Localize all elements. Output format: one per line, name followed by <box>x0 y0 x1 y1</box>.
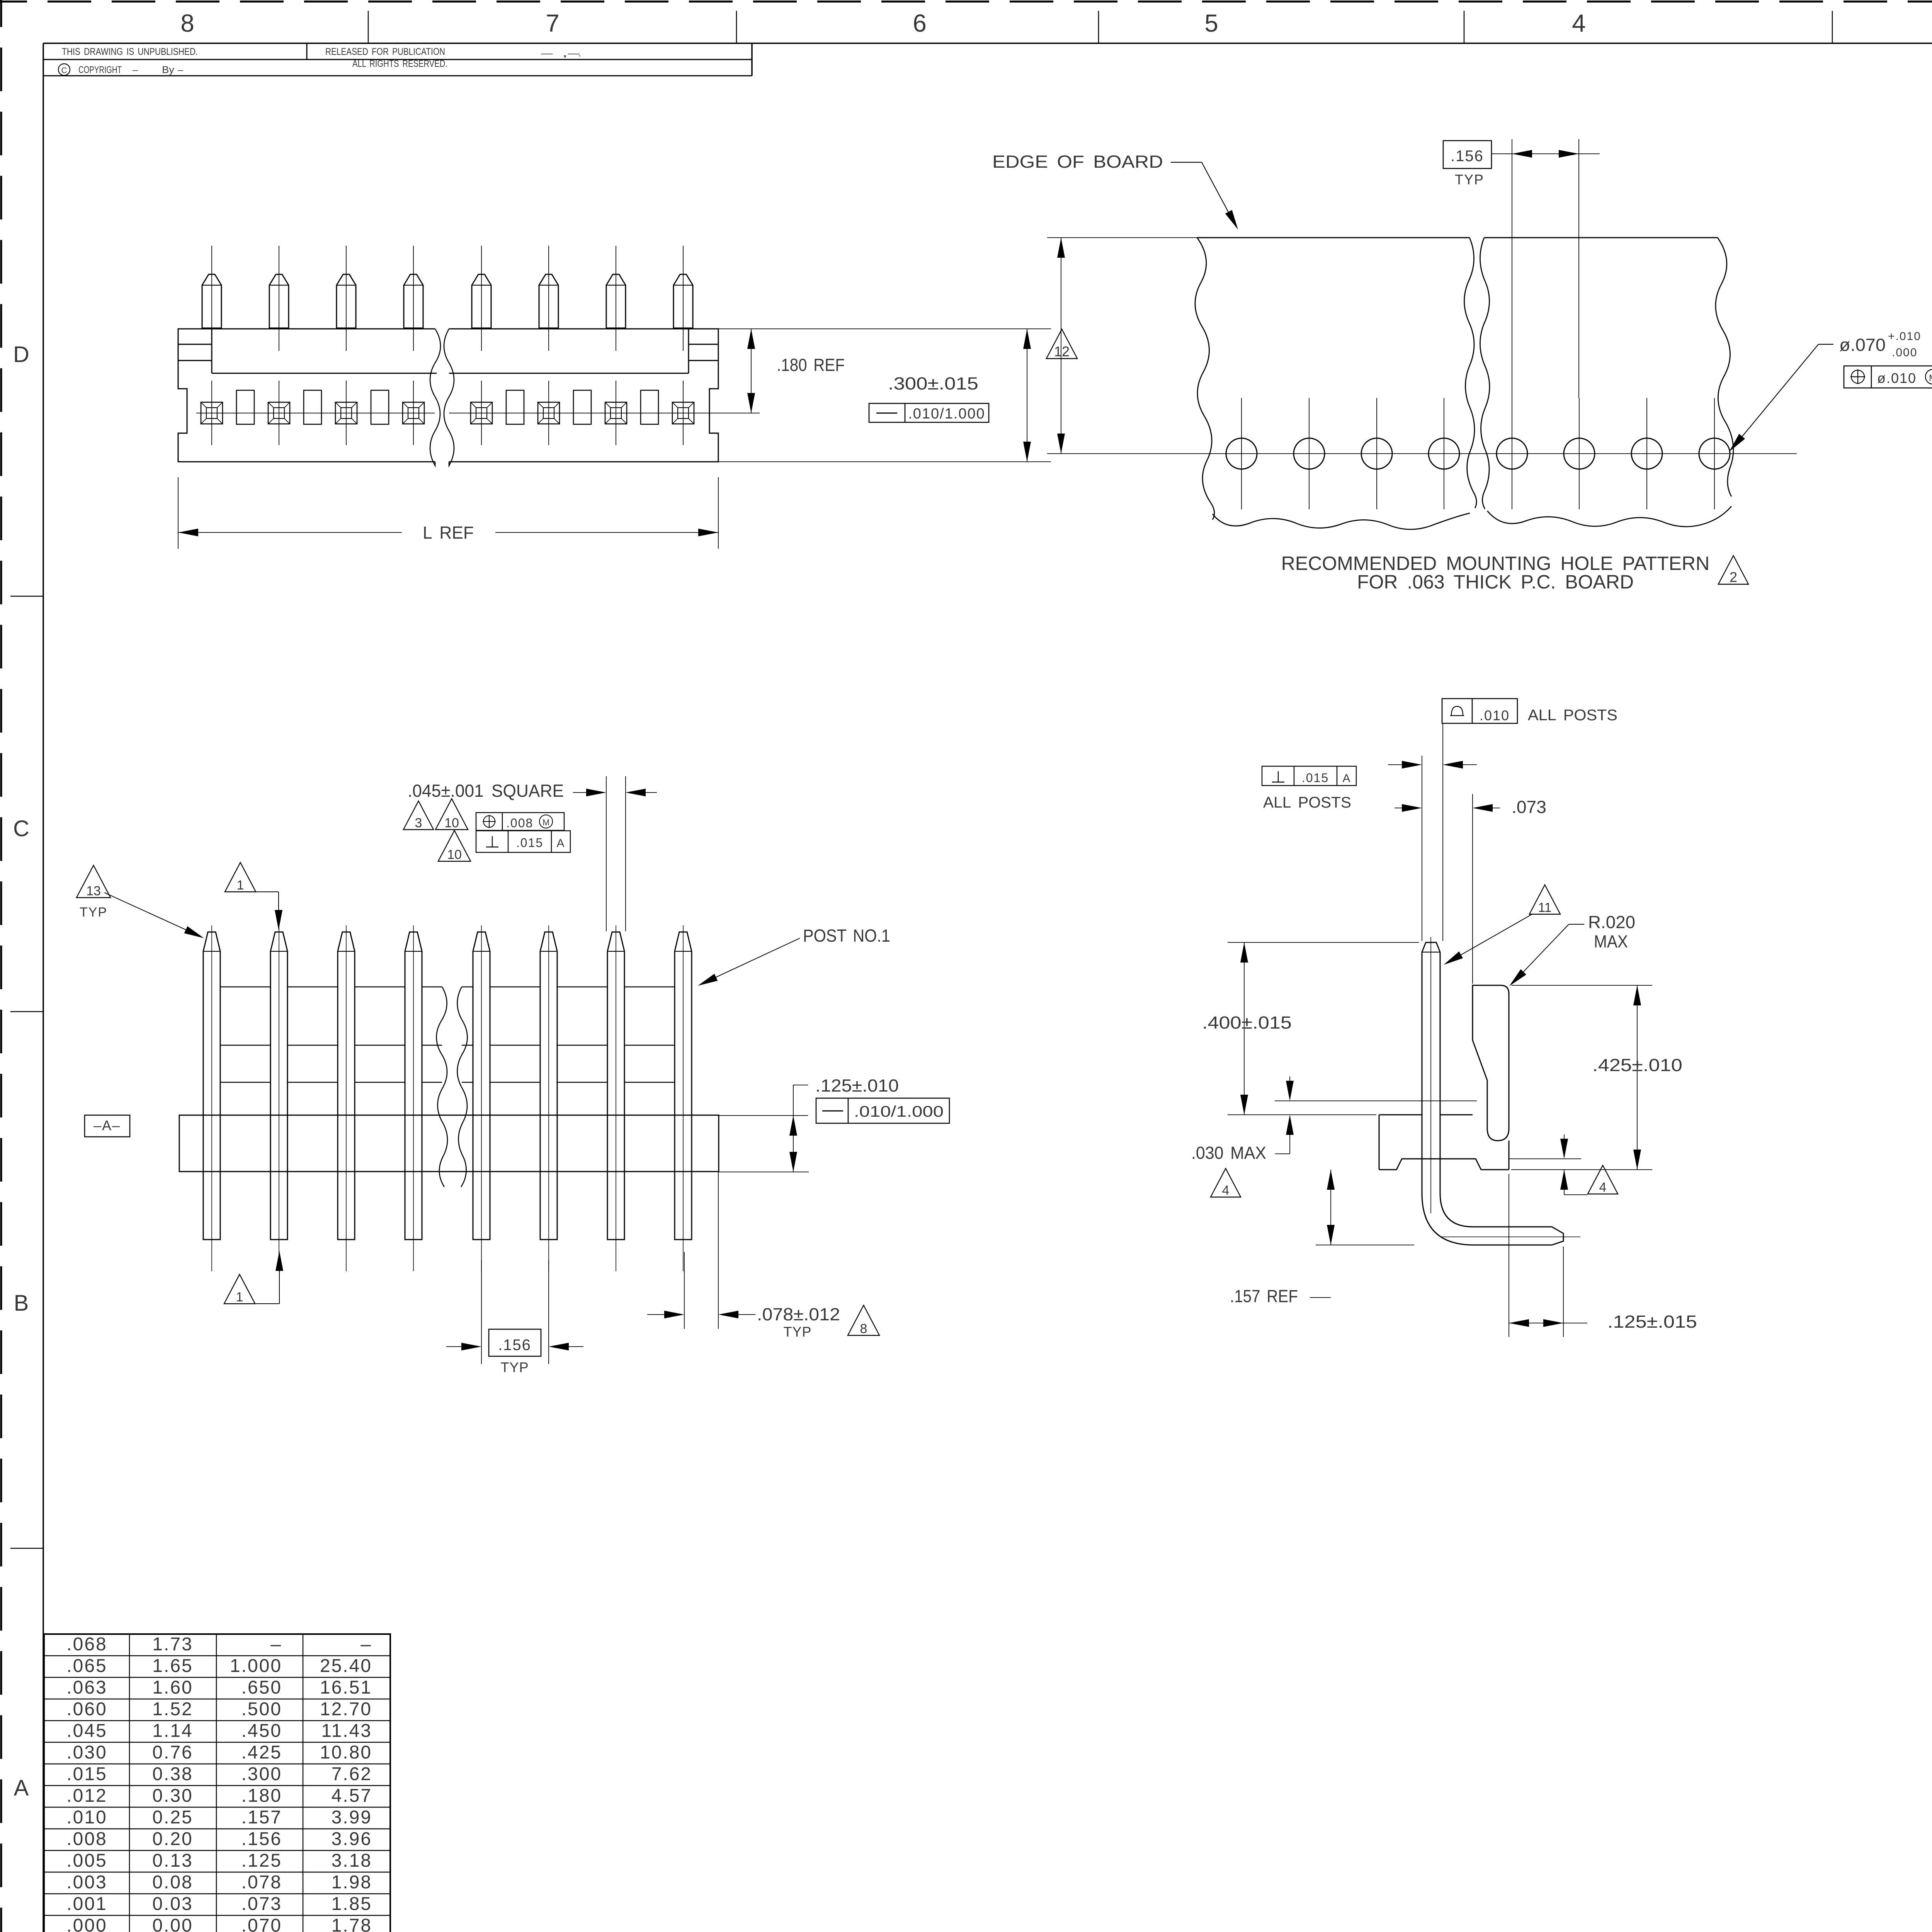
svg-text:.063: .063 <box>66 1677 107 1698</box>
svg-text:–: – <box>133 65 139 75</box>
svg-text:EDGE OF BOARD: EDGE OF BOARD <box>992 152 1163 172</box>
svg-text:.012: .012 <box>66 1786 107 1806</box>
svg-text:ø.010: ø.010 <box>1877 370 1917 386</box>
svg-text:TYP: TYP <box>500 1359 529 1375</box>
svg-text:A: A <box>1342 772 1350 785</box>
svg-text:3.99: 3.99 <box>332 1807 372 1828</box>
svg-text:.001: .001 <box>66 1894 107 1914</box>
svg-text:.015: .015 <box>1302 771 1329 785</box>
svg-text:.073: .073 <box>1512 797 1546 817</box>
svg-text:–A–: –A– <box>94 1117 121 1133</box>
svg-text:.078: .078 <box>241 1872 282 1893</box>
svg-text:TYP: TYP <box>783 1324 811 1340</box>
svg-text:.060: .060 <box>66 1699 107 1719</box>
svg-text:1: 1 <box>237 878 244 893</box>
svg-text:.425: .425 <box>241 1742 282 1763</box>
svg-text:MAX: MAX <box>1594 932 1628 951</box>
svg-text:1.98: 1.98 <box>332 1872 372 1893</box>
svg-text:0.08: 0.08 <box>152 1872 193 1893</box>
svg-text:C: C <box>13 816 29 841</box>
svg-text:D: D <box>13 342 29 367</box>
svg-text:.073: .073 <box>241 1894 282 1914</box>
svg-text:M: M <box>1929 373 1932 383</box>
svg-text:.000: .000 <box>66 1915 107 1932</box>
svg-text:1.14: 1.14 <box>152 1721 193 1741</box>
svg-text:4: 4 <box>1572 9 1586 37</box>
svg-text:.030: .030 <box>66 1742 107 1763</box>
svg-text:13: 13 <box>86 884 101 898</box>
svg-text:7: 7 <box>546 9 560 37</box>
svg-text:.300±.015: .300±.015 <box>888 374 978 393</box>
svg-text:0.20: 0.20 <box>152 1829 193 1849</box>
svg-text:12.70: 12.70 <box>320 1699 372 1719</box>
svg-text:.500: .500 <box>241 1699 282 1719</box>
svg-text:RELEASED FOR PUBLICATION: RELEASED FOR PUBLICATION <box>325 46 445 57</box>
svg-text:8: 8 <box>180 9 194 37</box>
svg-text:M: M <box>543 818 549 827</box>
svg-text:4.57: 4.57 <box>332 1786 372 1806</box>
svg-text:.125±.010: .125±.010 <box>815 1076 899 1095</box>
svg-text:.015: .015 <box>66 1764 107 1784</box>
svg-text:+.010: +.010 <box>1888 330 1921 343</box>
svg-text:1: 1 <box>236 1290 243 1304</box>
svg-text:.450: .450 <box>241 1721 282 1741</box>
svg-text:8: 8 <box>860 1321 867 1336</box>
svg-text:10: 10 <box>444 816 459 830</box>
svg-text:3: 3 <box>415 816 422 830</box>
svg-text:7.62: 7.62 <box>332 1764 372 1784</box>
svg-text:1.60: 1.60 <box>152 1677 193 1698</box>
svg-text:.065: .065 <box>66 1656 107 1676</box>
svg-text:10: 10 <box>447 847 462 862</box>
svg-text:.156: .156 <box>241 1829 282 1849</box>
svg-text:.068: .068 <box>66 1634 107 1655</box>
svg-text:0.25: 0.25 <box>152 1807 193 1828</box>
svg-text:.157 REF: .157 REF <box>1230 1286 1298 1306</box>
svg-text:–: – <box>178 65 184 75</box>
svg-text:.008: .008 <box>506 816 533 830</box>
svg-text:ALL POSTS: ALL POSTS <box>1263 794 1351 811</box>
svg-text:3.18: 3.18 <box>332 1850 372 1871</box>
svg-text:.010: .010 <box>1480 707 1510 723</box>
svg-text:0.30: 0.30 <box>152 1786 193 1806</box>
svg-text:POST NO.1: POST NO.1 <box>803 926 890 946</box>
svg-text:C: C <box>61 66 67 75</box>
svg-text:A: A <box>14 1776 29 1801</box>
svg-text:.400±.015: .400±.015 <box>1202 1013 1292 1032</box>
svg-text:ALL RIGHTS RESERVED.: ALL RIGHTS RESERVED. <box>352 58 447 69</box>
svg-text:.070: .070 <box>241 1915 282 1932</box>
svg-text:.125±.015: .125±.015 <box>1607 1312 1697 1332</box>
svg-text:.078±.012: .078±.012 <box>757 1304 840 1324</box>
svg-text:5: 5 <box>1204 9 1218 37</box>
svg-text:16.51: 16.51 <box>320 1677 372 1698</box>
svg-text:–: – <box>270 1634 282 1655</box>
svg-text:.000: .000 <box>1892 346 1917 359</box>
svg-text:.030 MAX: .030 MAX <box>1191 1143 1266 1163</box>
svg-text:.157: .157 <box>241 1807 282 1828</box>
svg-text:12: 12 <box>1054 344 1070 359</box>
svg-text:R.020: R.020 <box>1588 912 1635 932</box>
svg-text:11: 11 <box>1538 900 1551 915</box>
svg-text:.650: .650 <box>241 1677 282 1698</box>
svg-text:ø.070: ø.070 <box>1839 335 1886 355</box>
svg-text:0.00: 0.00 <box>152 1915 193 1932</box>
svg-text:.045±.001 SQUARE: .045±.001 SQUARE <box>408 781 564 801</box>
svg-text:.045: .045 <box>66 1721 107 1741</box>
svg-text:6: 6 <box>913 9 927 37</box>
svg-text:.425±.010: .425±.010 <box>1592 1055 1682 1075</box>
svg-text:1.73: 1.73 <box>152 1634 193 1655</box>
svg-text:.125: .125 <box>241 1850 282 1871</box>
svg-text:ALL POSTS: ALL POSTS <box>1528 707 1617 724</box>
svg-text:0.03: 0.03 <box>152 1894 193 1914</box>
svg-text:THIS DRAWING IS UNPUBLISHED.: THIS DRAWING IS UNPUBLISHED. <box>62 46 198 57</box>
svg-text:.010/1.000: .010/1.000 <box>908 406 985 422</box>
svg-text:.180 REF: .180 REF <box>777 355 845 375</box>
svg-text:A: A <box>556 837 565 850</box>
svg-text:.300: .300 <box>241 1764 282 1784</box>
svg-text:10.80: 10.80 <box>320 1742 372 1763</box>
svg-text:3.96: 3.96 <box>332 1829 372 1849</box>
svg-text:0.76: 0.76 <box>152 1742 193 1763</box>
svg-text:4: 4 <box>1599 1180 1607 1195</box>
svg-text:.: . <box>578 48 582 59</box>
svg-text:By: By <box>162 65 175 75</box>
svg-text:COPYRIGHT: COPYRIGHT <box>78 65 122 75</box>
svg-text:.003: .003 <box>66 1872 107 1893</box>
svg-text:25.40: 25.40 <box>320 1656 372 1676</box>
svg-text:FOR .063 THICK P.C. BOARD: FOR .063 THICK P.C. BOARD <box>1357 571 1634 593</box>
svg-text:.010/1.000: .010/1.000 <box>854 1103 944 1120</box>
svg-text:B: B <box>14 1291 29 1316</box>
svg-text:L REF: L REF <box>423 523 474 543</box>
svg-text:0.38: 0.38 <box>152 1764 193 1784</box>
svg-text:.008: .008 <box>66 1829 107 1849</box>
svg-text:TYP: TYP <box>1455 172 1484 187</box>
svg-text:11.43: 11.43 <box>321 1721 372 1741</box>
svg-text:.010: .010 <box>66 1807 107 1828</box>
svg-text:1.52: 1.52 <box>152 1699 193 1719</box>
svg-text:1.85: 1.85 <box>332 1894 372 1914</box>
svg-text:4: 4 <box>1222 1183 1230 1198</box>
svg-text:.005: .005 <box>66 1850 107 1871</box>
svg-text:1.000: 1.000 <box>230 1656 282 1676</box>
svg-text:.015: .015 <box>516 836 543 850</box>
svg-text:.156: .156 <box>1451 148 1484 165</box>
svg-text:.180: .180 <box>241 1786 282 1806</box>
svg-text:– ,–: – ,– <box>541 48 580 59</box>
svg-text:2: 2 <box>1730 569 1737 585</box>
svg-text:.156: .156 <box>498 1337 531 1354</box>
svg-text:–: – <box>361 1634 372 1655</box>
svg-text:1.78: 1.78 <box>332 1915 372 1932</box>
svg-text:1.65: 1.65 <box>152 1656 193 1676</box>
svg-text:TYP: TYP <box>80 905 107 920</box>
svg-text:0.13: 0.13 <box>152 1850 193 1871</box>
